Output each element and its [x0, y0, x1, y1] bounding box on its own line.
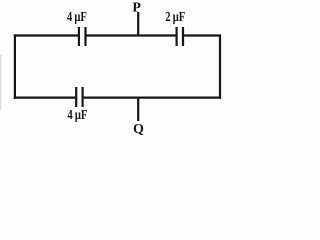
wire: bottom segment left: [14, 96, 77, 98]
capacitor C3 4uF bottom: left plate: [75, 87, 77, 107]
node Q stub wire: [137, 98, 139, 121]
svg-text:4 μF: 4 μF: [67, 108, 87, 123]
wire: top segment right: [183, 34, 221, 36]
capacitor C2 2uF top-right: left plate: [176, 27, 178, 46]
svg-text:2 μF: 2 μF: [165, 10, 185, 25]
svg-text:P: P: [132, 0, 141, 15]
scan artifact streak at left edge: [0, 55, 2, 110]
wire: bottom segment right: [83, 96, 222, 98]
capacitor C1 4uF top-left: left plate: [78, 27, 80, 46]
capacitor C1 4uF top-left: right plate: [84, 27, 86, 46]
wire: left vertical side: [14, 34, 16, 98]
node P stub wire: [137, 12, 139, 36]
wire: top segment left: [14, 34, 79, 36]
capacitor C2 2uF top-right: right plate: [182, 27, 184, 46]
svg-text:Q: Q: [133, 122, 144, 137]
capacitor C3 4uF bottom: right plate: [81, 87, 83, 107]
wire: right vertical side: [219, 34, 221, 98]
wire: top segment middle: [86, 34, 177, 36]
svg-text:4 μF: 4 μF: [67, 10, 87, 25]
